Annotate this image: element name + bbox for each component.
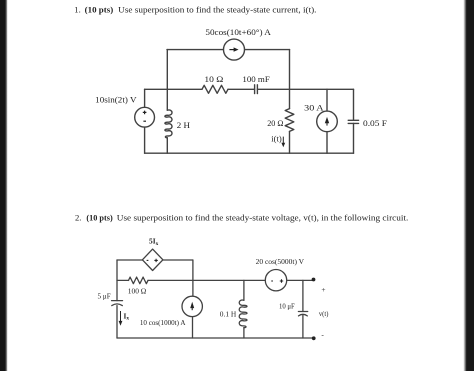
svg-text:50cos(10t+60°) A: 50cos(10t+60°) A: [205, 27, 271, 37]
svg-text:20 Ω: 20 Ω: [267, 118, 284, 128]
svg-text:1.: 1.: [74, 4, 80, 14]
svg-text:20 cos(5000t) V: 20 cos(5000t) V: [256, 257, 305, 266]
svg-text:100 Ω: 100 Ω: [128, 287, 147, 296]
svg-text:10 μF: 10 μF: [279, 301, 295, 310]
svg-text:30 A: 30 A: [304, 103, 324, 113]
svg-text:0.1 H: 0.1 H: [220, 310, 237, 319]
svg-text:(10 pts): (10 pts): [86, 213, 112, 223]
svg-text:10 Ω: 10 Ω: [204, 74, 223, 84]
svg-text:2 H: 2 H: [177, 120, 191, 130]
svg-text:5 μF: 5 μF: [98, 291, 111, 300]
svg-text:Use superposition to find the: Use superposition to find the steady-sta…: [117, 213, 409, 223]
svg-text:10sin(2t) V: 10sin(2t) V: [95, 95, 137, 105]
svg-text:0.05 F: 0.05 F: [363, 118, 387, 128]
svg-text:v(t): v(t): [319, 309, 329, 318]
svg-text:+: +: [321, 285, 325, 294]
svg-text:100 mF: 100 mF: [242, 74, 269, 84]
svg-text:Use superposition to find the: Use superposition to find the steady-sta…: [118, 4, 316, 14]
svg-text:(10 pts): (10 pts): [85, 4, 114, 14]
svg-text:10 cos(1000t) A: 10 cos(1000t) A: [140, 318, 186, 327]
svg-text:2.: 2.: [75, 213, 81, 223]
svg-text:i(t): i(t): [271, 135, 282, 144]
